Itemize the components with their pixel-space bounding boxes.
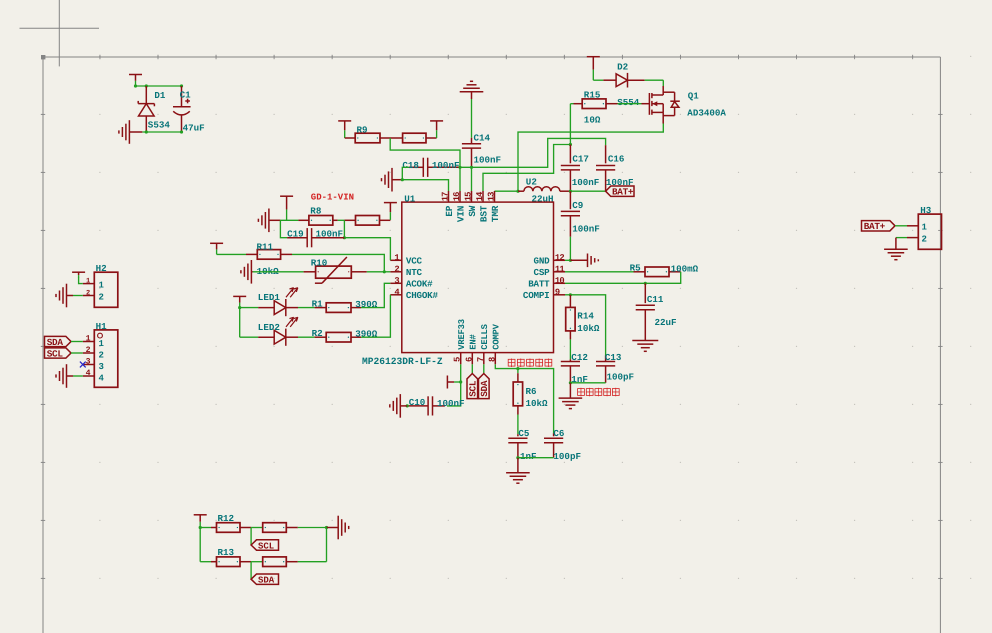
capacitor C13: [596, 356, 615, 383]
stub T10 at H2: [72, 272, 85, 277]
ground at H3: [884, 238, 908, 260]
svg-text:BATT: BATT: [528, 279, 550, 290]
wire T11-R12: [200, 527, 211, 529]
svg-text:EN#: EN#: [469, 334, 479, 350]
label R8: [310, 205, 322, 216]
wire COMPI net: [565, 295, 606, 356]
label H1: [96, 321, 108, 332]
junction SW-C14: [470, 166, 473, 169]
stub T9 above D2: [587, 57, 600, 80]
wire SDA drop: [250, 562, 252, 580]
H3 pin2: [907, 235, 927, 245]
svg-text:R1: R1: [312, 298, 324, 309]
wire T4-R11: [217, 253, 258, 255]
diode D2: [603, 73, 644, 88]
H2 pin1: [83, 281, 105, 291]
wire D1-C1 bottom: [142, 131, 181, 133]
U1 right pin numbers: [555, 253, 564, 298]
svg-text:R14: R14: [577, 311, 594, 322]
value C13 100pF: [607, 371, 635, 382]
svg-text:CELLS: CELLS: [480, 324, 490, 349]
wire R8 tap down: [343, 220, 345, 237]
wire LED node down: [239, 308, 241, 338]
label R15: [584, 90, 601, 101]
junction C18 ground node: [401, 178, 404, 181]
svg-text:S534: S534: [148, 119, 171, 130]
resistor R8b: [344, 216, 390, 226]
wire VIN pin drop: [459, 167, 461, 191]
svg-text:8: 8: [487, 357, 497, 362]
ground at H1: [56, 364, 73, 388]
svg-text:5: 5: [453, 357, 463, 362]
stub T11 at R12: [194, 515, 207, 528]
label U1: [404, 193, 416, 204]
label H3: [920, 205, 932, 216]
svg-text:11: 11: [555, 265, 564, 275]
value C17 100nF: [572, 177, 600, 188]
svg-text:2: 2: [394, 265, 399, 275]
U1 right pin stubs: [554, 260, 566, 295]
svg-text:C18: C18: [402, 160, 419, 171]
value C16 100nF: [606, 177, 634, 188]
svg-text:H2: H2: [96, 263, 107, 274]
label LED2: [258, 322, 280, 333]
label R11: [257, 242, 274, 253]
label C1: [180, 90, 192, 101]
resistor R9b: [403, 133, 426, 143]
value R11 10k: [257, 266, 280, 277]
svg-text:COMPI: COMPI: [523, 290, 550, 301]
resistor R13b: [263, 557, 298, 567]
junction U2 left: [516, 190, 519, 193]
capacitor C5: [508, 434, 527, 458]
junction at D1 bottom: [145, 130, 183, 133]
junction C19: [343, 236, 346, 239]
capacitor C16: [596, 145, 615, 191]
label D2: [617, 61, 628, 72]
value MP26123DR-LF-Z: [362, 356, 443, 367]
U1 top pin stubs: [449, 191, 495, 202]
wire T2-R9: [345, 137, 356, 139]
svg-text:SCL: SCL: [258, 541, 274, 551]
wire C9 to GND pin: [569, 237, 571, 261]
global label BAT+ top: [606, 186, 634, 197]
wire COMPV net: [495, 364, 553, 433]
ground near C10: [390, 394, 407, 418]
svg-text:390Ω: 390Ω: [355, 329, 378, 340]
svg-text:3: 3: [86, 358, 91, 367]
resistor R12b: [263, 523, 298, 533]
wire gnd-C14: [471, 99, 473, 138]
label C19: [287, 228, 304, 239]
U1 right pin names: [523, 256, 550, 302]
U1 top pin names: [444, 205, 501, 222]
resistor R6: [513, 369, 522, 415]
wire SW to Q1: [518, 124, 663, 192]
no-connect X at H1 pin3: [80, 362, 86, 368]
U1 bottom pin names: [457, 319, 502, 349]
svg-text:390Ω: 390Ω: [355, 299, 378, 310]
svg-text:GD-1-VIN: GD-1-VIN: [311, 192, 354, 202]
wire C19 node to VCC: [344, 238, 390, 261]
svg-text:1: 1: [922, 223, 928, 233]
wire LED node to LED2: [240, 336, 259, 338]
label R12: [218, 513, 235, 524]
H2 pin2: [83, 292, 104, 302]
svg-text:U1: U1: [404, 193, 416, 204]
label C13: [605, 352, 622, 363]
value D2 S554: [617, 97, 640, 108]
wire C19 left up: [280, 220, 287, 237]
value C19 100nF: [316, 228, 344, 239]
wire C18 left to ground node: [402, 167, 409, 179]
svg-text:C14: C14: [474, 133, 491, 144]
junction VREF33: [459, 380, 462, 383]
LED LED2: [258, 317, 298, 346]
ground below C12: [559, 383, 583, 409]
H2 pin2 number: [86, 290, 90, 298]
global label SDA bottom: [251, 574, 278, 586]
junction C17 top: [569, 143, 572, 146]
label C17: [572, 154, 589, 165]
junction LED node: [238, 306, 241, 309]
svg-text:R6: R6: [526, 386, 537, 397]
wire BAT+ rail: [570, 190, 605, 192]
resistor R9: [355, 133, 380, 143]
wire R12b to gnd: [298, 527, 327, 529]
svg-text:16: 16: [452, 192, 462, 201]
U1 left pin stubs: [390, 260, 402, 295]
svg-text:BAT+: BAT+: [864, 221, 886, 232]
value S534: [148, 119, 171, 130]
svg-text:C11: C11: [647, 294, 664, 305]
global label SCL vertical: [467, 374, 479, 399]
svg-text:LED1: LED1: [258, 292, 281, 303]
ground below C5: [506, 458, 530, 484]
label H2: [96, 263, 107, 274]
label R6: [526, 386, 537, 397]
svg-text:EP: EP: [444, 205, 455, 216]
svg-text:LED2: LED2: [258, 322, 280, 333]
svg-text:13: 13: [486, 192, 496, 201]
wire R6-C5: [517, 415, 519, 435]
svg-text:CSP: CSP: [534, 267, 551, 278]
svg-text:BAT+: BAT+: [612, 187, 634, 198]
svg-text:100nF: 100nF: [572, 177, 600, 188]
wire GND pin stub link: [565, 259, 570, 261]
junction R12 left: [199, 526, 202, 529]
svg-text:COMPV: COMPV: [492, 323, 502, 349]
label C5: [518, 428, 530, 439]
wire R9b-T3: [426, 137, 437, 139]
svg-text:100nF: 100nF: [474, 154, 502, 165]
value R14 10k: [577, 323, 600, 334]
svg-text:9: 9: [555, 288, 560, 298]
resistor R11: [257, 250, 280, 260]
label C11: [647, 294, 664, 305]
wire R5 to BATT: [565, 272, 681, 284]
capacitor C18: [409, 158, 460, 177]
wire pin7 stub ext: [483, 364, 485, 373]
value C12 1nF: [571, 374, 588, 385]
svg-text:4: 4: [86, 369, 91, 378]
wire R15 left drop: [570, 103, 573, 105]
label R5: [630, 262, 642, 273]
svg-text:3: 3: [99, 362, 104, 372]
svg-text:U2: U2: [526, 177, 537, 188]
global label SCL bottom: [251, 540, 278, 552]
svg-text:100nF: 100nF: [437, 398, 465, 409]
svg-text:1: 1: [394, 253, 399, 263]
svg-text:SW: SW: [467, 205, 478, 216]
global label SDA vertical: [479, 374, 491, 399]
wire H1 pin4 to gnd: [73, 375, 83, 377]
wire pin6 stub ext: [471, 364, 473, 373]
transistor Q1: [642, 86, 680, 124]
stub T6 right of R8b: [384, 203, 397, 220]
svg-text:C19: C19: [287, 228, 304, 239]
svg-text:15: 15: [463, 192, 473, 201]
svg-text:C5: C5: [518, 428, 530, 439]
resistor R8: [298, 216, 332, 226]
resistor R1: [315, 303, 361, 313]
svg-text:R8: R8: [310, 205, 322, 216]
svg-text:22uF: 22uF: [655, 317, 677, 328]
value 22uF: [655, 317, 677, 328]
junction C12 bottom: [569, 381, 572, 384]
wire VREF33 drop: [460, 364, 462, 382]
svg-text:SDA: SDA: [47, 337, 64, 348]
svg-text:SDA: SDA: [258, 576, 275, 586]
value R15 10: [584, 114, 601, 125]
junction C10 left: [406, 404, 409, 407]
ground at H2: [56, 284, 73, 308]
ground left of R10: [241, 260, 253, 284]
svg-text:NTC: NTC: [406, 267, 423, 278]
svg-text:100pF: 100pF: [553, 451, 581, 462]
value C6 100pF: [553, 451, 581, 462]
junction NTC: [383, 270, 386, 273]
label U2: [526, 177, 537, 188]
wire SW pin drop: [471, 167, 473, 191]
wire H2 pin1 to T10: [79, 277, 83, 284]
wire H3 pin2 to gnd: [896, 237, 907, 239]
wire R10 to NTC pin: [367, 271, 391, 273]
value C9 100nF: [572, 224, 600, 235]
IC U1 body: [402, 202, 554, 353]
wire R12 mid: [240, 527, 263, 529]
svg-text:R13: R13: [218, 547, 235, 558]
ground at GND pin: [570, 254, 598, 268]
resistor R2: [315, 332, 361, 342]
svg-text:14: 14: [475, 191, 485, 201]
svg-text:1: 1: [86, 278, 90, 286]
global label BAT+ at H3: [862, 221, 908, 232]
H1 pins: [83, 335, 105, 384]
label Q1: [688, 90, 700, 101]
wire D2 to Q1 drain: [645, 80, 664, 86]
label R14: [577, 311, 594, 322]
grid dots: [41, 56, 971, 579]
capacitor C9: [561, 191, 580, 237]
svg-text:4: 4: [394, 288, 400, 298]
label R13: [218, 547, 235, 558]
stub T3 right of R9b: [430, 121, 443, 138]
wire VIN rail: [460, 138, 606, 167]
label C10: [409, 397, 426, 408]
capacitor C11: [636, 283, 655, 340]
capacitor C12: [561, 359, 580, 383]
svg-text:22uH: 22uH: [532, 194, 554, 205]
svg-text:C12: C12: [571, 352, 588, 363]
svg-text:R12: R12: [218, 513, 235, 524]
junction C11 top: [644, 282, 647, 285]
svg-text:GND: GND: [534, 256, 551, 267]
svg-text:6: 6: [464, 357, 474, 362]
svg-text:2: 2: [99, 351, 104, 361]
label R10: [311, 258, 328, 269]
wire CSP to R5: [565, 271, 634, 273]
junction R6 top: [516, 367, 519, 370]
svg-text:1nF: 1nF: [520, 451, 537, 462]
wire SCL drop: [250, 528, 252, 546]
svg-text:3: 3: [394, 276, 399, 286]
svg-text:100nF: 100nF: [432, 160, 460, 171]
stub T2 left of R9: [338, 121, 351, 138]
value C5 1nF: [520, 451, 537, 462]
ground at R12: [327, 516, 349, 540]
value 22uH: [532, 194, 554, 205]
svg-text:Q1: Q1: [688, 90, 700, 101]
svg-text:BST: BST: [478, 205, 489, 222]
ground near D1: [119, 120, 142, 144]
junction U2 right: [569, 190, 572, 193]
connector H3: [918, 214, 941, 249]
label C16: [608, 154, 625, 165]
H1 pin1 mark: [98, 333, 103, 338]
svg-text:SCL: SCL: [47, 348, 64, 359]
value R1 390: [355, 299, 378, 310]
resistor R12: [211, 523, 240, 533]
stub T8 at VREF33: [447, 376, 460, 389]
svg-text:1: 1: [99, 281, 105, 291]
junction R12 right: [325, 526, 328, 529]
svg-text:D2: D2: [617, 61, 628, 72]
value C10 100nF: [437, 398, 465, 409]
text voltage loop (CJK): [508, 359, 552, 368]
capacitor C10: [407, 396, 445, 415]
svg-text:10Ω: 10Ω: [584, 114, 601, 125]
svg-text:AD3400A: AD3400A: [687, 108, 726, 119]
svg-text:TMR: TMR: [490, 205, 501, 222]
wire R8 tap: [333, 219, 345, 221]
wire ground node to EP: [402, 180, 448, 191]
capacitor C17: [561, 145, 580, 192]
wire Q1 column: [569, 104, 571, 145]
wire R13 mid: [240, 561, 263, 563]
wire R11 to NTC: [281, 254, 385, 271]
svg-text:VREF33: VREF33: [457, 319, 467, 349]
svg-text:1: 1: [99, 339, 105, 349]
stub T7 left of LEDs: [233, 296, 246, 307]
ground near C18: [382, 168, 403, 192]
svg-text:R9: R9: [357, 124, 368, 135]
wire R14-C12: [569, 339, 571, 359]
U1 left pin numbers: [394, 253, 400, 298]
inductor U2: [518, 187, 570, 192]
label C6: [553, 428, 564, 439]
wire R15 to gate: [618, 103, 642, 105]
resistor R5: [634, 267, 681, 277]
junction at D1 top: [134, 84, 183, 87]
svg-text:VIN: VIN: [455, 205, 466, 222]
wire VIN-D1 top: [136, 85, 182, 87]
svg-text:H3: H3: [920, 205, 932, 216]
svg-text:C16: C16: [608, 154, 625, 165]
wire H2 pin2 to gnd: [73, 295, 83, 297]
global label SDA at H1: [45, 336, 83, 347]
value R2 390: [355, 329, 378, 340]
svg-text:7: 7: [476, 357, 486, 362]
wire R1 to ACOK: [361, 283, 390, 307]
capacitor C14: [462, 138, 481, 168]
svg-text:47uF: 47uF: [183, 123, 205, 134]
svg-text:C17: C17: [572, 154, 589, 165]
LED LED1: [258, 288, 298, 317]
stub T5 above R8: [280, 196, 293, 220]
wire R12-R13 left: [200, 528, 211, 562]
wire R9 junction: [380, 137, 403, 139]
wire LED1-R1: [298, 307, 315, 309]
junction GND pin: [569, 259, 572, 262]
svg-text:R2: R2: [312, 328, 323, 339]
thermistor R10: [304, 257, 367, 283]
capacitor C6: [544, 433, 563, 458]
text current loop (CJK): [578, 388, 620, 397]
wire gnd-R8: [280, 219, 298, 221]
label R1: [312, 298, 324, 309]
stub T1 above D1: [129, 75, 142, 87]
svg-text:C1: C1: [180, 90, 192, 101]
svg-text:ACOK#: ACOK#: [406, 279, 433, 290]
svg-text:10kΩ: 10kΩ: [526, 398, 549, 409]
wire C5-C6 bottom: [518, 457, 554, 459]
value C18 100nF: [432, 160, 460, 171]
junction C5 bottom: [516, 456, 519, 459]
svg-text:2: 2: [86, 290, 90, 298]
value 47uF: [183, 123, 205, 134]
svg-text:C13: C13: [605, 352, 622, 363]
resistor R13: [211, 557, 240, 567]
svg-text:MP26123DR-LF-Z: MP26123DR-LF-Z: [362, 356, 443, 367]
value C14 100nF: [474, 154, 502, 165]
svg-text:100nF: 100nF: [316, 228, 344, 239]
svg-text:C9: C9: [572, 200, 583, 211]
svg-text:C10: C10: [409, 397, 426, 408]
svg-text:10kΩ: 10kΩ: [577, 323, 600, 334]
svg-text:12: 12: [555, 253, 564, 263]
wire LED node to LED1: [240, 307, 259, 309]
svg-text:SDA: SDA: [479, 380, 490, 397]
label R9: [357, 124, 368, 135]
svg-text:1: 1: [86, 335, 91, 344]
value AD3400A: [687, 108, 726, 119]
svg-text:SCL: SCL: [468, 380, 479, 397]
wire R2 to CHGOK: [361, 295, 390, 337]
svg-text:10: 10: [555, 276, 564, 286]
label C14: [474, 133, 491, 144]
svg-text:S554: S554: [617, 97, 640, 108]
